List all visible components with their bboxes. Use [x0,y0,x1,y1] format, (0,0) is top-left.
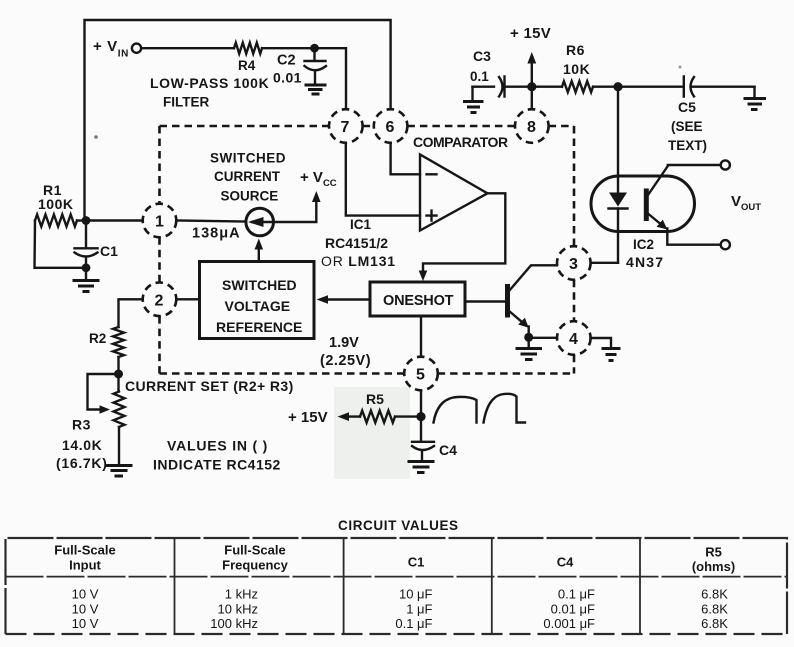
arrowhead into current source [255,239,264,250]
IC1 dashed outline right edge [573,126,576,374]
svg-text:2: 2 [155,292,164,309]
ground pin4 [602,349,621,361]
phototransistor collector [647,165,720,196]
svg-text:10K: 10K [563,61,590,77]
pin 8 [515,109,549,143]
svg-text:14.0K: 14.0K [62,437,102,453]
phototransistor emitter with arrowhead [647,213,663,226]
wire Q1 emitter to node [528,327,530,338]
svg-text:Frequency: Frequency [222,558,289,573]
svg-text:C4: C4 [557,555,574,570]
transistor Q1 emitter with arrowhead [509,311,526,326]
svg-text:Input: Input [69,558,101,573]
wire pin2 to R2 [119,299,143,327]
svg-text:R5: R5 [705,545,722,560]
capacitor C5 [684,77,755,97]
svg-text:CURRENT SET (R2+ R3): CURRENT SET (R2+ R3) [125,378,294,394]
current source arrow [252,221,273,223]
svg-text:C1: C1 [408,555,425,570]
node R1 C1 pin1 [82,216,91,225]
svg-text:R5: R5 [366,391,384,407]
svg-text:INDICATE RC4152: INDICATE RC4152 [153,457,281,473]
capacitor C1 [75,224,98,268]
wire R3 to ground [118,427,120,465]
wire pin4 to ground [591,338,611,347]
wire C5 to ground [753,87,755,98]
svg-text:Full-Scale: Full-Scale [224,543,285,558]
wire VIN to R4 [141,47,234,49]
arrowhead +15V left [338,412,350,421]
svg-text:C3: C3 [473,48,491,64]
resistor R5 [360,411,395,423]
svg-text:C1: C1 [100,243,118,259]
speck [679,66,682,69]
svg-text:6.8K: 6.8K [701,616,728,631]
tint [334,387,410,479]
pin 5 [404,357,438,391]
node +15V junction [527,82,536,91]
capacitor C3 [499,77,528,97]
wire R4 to pin7 drop [262,48,346,109]
table frame [6,538,788,634]
svg-text:(SEE: (SEE [671,119,703,134]
node R6 LED C5 [613,82,622,91]
ground R3 [106,466,133,477]
waveform sawtooth [434,394,526,423]
resistor R1 [35,215,77,227]
svg-text:10 V: 10 V [72,602,99,617]
wire node to ground [528,337,530,348]
terminal Vout lower [721,240,730,249]
capacitor C2 [305,48,327,84]
svg-text:REFERENCE: REFERENCE [216,319,302,335]
svg-text:0.1 μF: 0.1 μF [395,616,432,631]
svg-text:R3: R3 [72,417,91,433]
node R5 C4 [416,412,425,421]
node C2 junction [310,44,319,53]
wire pin2 to SVR [176,298,199,300]
svg-text:1 μF: 1 μF [406,602,432,617]
terminal Vout upper [721,160,730,169]
svg-text:6.8K: 6.8K [701,602,728,617]
capacitor C4 [412,417,434,461]
wire pin3 to LED [591,262,618,264]
arrowhead +VCC [312,191,321,202]
transistor Q1 collector [509,265,558,291]
svg-text:0.1 μF: 0.1 μF [558,587,595,602]
svg-text:IC1: IC1 [350,217,372,232]
resistor R3 [114,392,125,428]
node C1 bottom [82,263,91,272]
wire top feedback loop [85,20,391,221]
optocoupler IC2 package [591,176,695,232]
wire R1 left leg [35,221,86,268]
svg-text:0.01 μF: 0.01 μF [551,602,595,617]
op-amp minus sign [427,173,437,175]
svg-text:10 V: 10 V [72,616,99,631]
svg-text:100 kHz: 100 kHz [210,616,258,631]
wire ground to C3 [473,85,495,87]
svg-text:Full-Scale: Full-Scale [54,543,115,558]
speck2 [94,135,98,139]
ground C5 [744,99,767,110]
wire LED cathode down to pin3 wire [617,209,619,263]
wire node to pin1 [86,219,143,221]
LED D1 cathode bar [609,207,628,209]
svg-text:(16.7K): (16.7K) [56,455,108,471]
wire pin6 to op-amp inverting input [391,143,420,175]
wire R2 to node [117,357,119,374]
svg-text:(2.25V): (2.25V) [320,353,371,369]
transistor Q1 base bar [505,284,510,318]
svg-text:OR LM131: OR LM131 [321,253,396,269]
svg-text:VALUES IN ( ): VALUES IN ( ) [167,438,268,454]
svg-text:SWITCHED: SWITCHED [222,277,297,293]
wire node to R6 [532,85,562,87]
svg-text:138μA: 138μA [192,226,241,242]
wire SVR top to current source arrow up [258,246,260,262]
svg-text:3: 3 [569,256,578,273]
oneshot box [370,282,465,316]
node Q1 emitter [524,333,533,342]
svg-text:1: 1 [155,214,164,231]
wire node to C5 [618,85,684,87]
wire R6 to LED node [593,85,618,87]
svg-text:LOW-PASS 100K: LOW-PASS 100K [150,75,269,91]
svg-text:CIRCUIT VALUES: CIRCUIT VALUES [338,518,459,533]
svg-text:8: 8 [527,119,536,136]
wire R1 right to node [77,219,86,221]
wire pin5 down to node [420,390,422,416]
svg-text:10 V: 10 V [72,587,99,602]
wire node to pin4 [529,337,557,339]
svg-text:TEXT): TEXT) [668,138,707,153]
svg-text:4: 4 [569,331,578,348]
svg-text:SOURCE: SOURCE [221,189,279,204]
ground Q1 emitter [516,349,543,360]
svg-text:SWITCHED: SWITCHED [210,151,286,166]
wire wiper loop [88,374,119,410]
svg-text:6: 6 [386,119,395,136]
node R2 R3 wiper [114,370,123,379]
svg-text:5: 5 [416,367,425,384]
wire pin1 to current source [176,221,246,222]
wire oneshot to SVR with arrowhead [325,298,370,300]
svg-text:VOLTAGE: VOLTAGE [225,298,291,314]
wire node up to +15V arrow [531,60,533,87]
LED D1 anode triangle [609,193,627,207]
svg-text:0.001 μF: 0.001 μF [543,616,595,631]
svg-text:0.1: 0.1 [470,69,489,84]
svg-text:C2: C2 [277,53,296,69]
IC1 dashed outline left edge [158,126,161,374]
ground C2 [305,85,327,94]
ground C3 [471,87,473,101]
svg-text:C4: C4 [439,442,457,458]
wire oneshot to Q1 base [465,300,505,302]
pin 4 [557,321,591,355]
svg-text:10 μF: 10 μF [399,587,433,602]
svg-text:10 kHz: 10 kHz [218,602,258,617]
svg-text:0.01: 0.01 [273,70,302,86]
wire oneshot bottom to pin5 [420,316,422,357]
ground C4 [408,462,435,473]
wire pin7 to op-amp non-inverting input [346,143,420,216]
svg-text:1 kHz: 1 kHz [225,587,258,602]
ground C1 [73,281,100,292]
wire node to R5 [395,415,421,417]
svg-text:C5: C5 [678,99,696,115]
terminal +VIN [132,44,141,53]
arrowhead +15V [527,52,536,64]
svg-text:COMPARATOR: COMPARATOR [413,134,508,150]
resistor R4 [234,43,262,54]
wire node to R3 [117,374,119,392]
svg-text:FILTER: FILTER [163,95,209,110]
wire current source to +VCC arrow [274,197,317,222]
svg-text:(ohms): (ohms) [692,559,735,574]
svg-text:IC2: IC2 [633,237,654,252]
pin 1 [143,204,177,238]
phototransistor Q2 base bar [644,189,649,222]
pin 7 [329,109,363,143]
wire C1 node to ground [85,268,87,280]
svg-text:100K: 100K [38,196,73,212]
svg-text:7: 7 [341,119,350,136]
svg-text:CURRENT: CURRENT [214,169,281,184]
svg-text:4N37: 4N37 [626,254,664,270]
pin 2 [143,283,177,317]
resistor R2 [113,327,124,357]
svg-text:+ 15V: + 15V [510,25,551,42]
arrowhead wiper into R3 [100,405,111,414]
op-amp plus sign [427,211,437,221]
pin 6 [374,109,408,143]
svg-text:R6: R6 [566,42,585,58]
IC1 dashed outline top edge [160,125,575,128]
svg-text:+ 15V: + 15V [288,409,328,426]
wire op-amp output to oneshot with arrowhead [423,193,505,274]
wire R5 to +15V arrow [345,415,360,417]
pin 3 [557,246,591,280]
wire emitter to lower terminal [667,229,720,245]
svg-text:1.9V: 1.9V [329,335,359,351]
wire node down to pin8 [531,87,533,110]
svg-text:6.8K: 6.8K [701,587,728,602]
svg-text:RC4151/2: RC4151/2 [325,235,388,251]
IC1 dashed outline bottom edge [160,372,575,375]
svg-text:R4: R4 [238,58,256,73]
resistor R6 [562,81,593,92]
switched voltage reference box [200,262,315,339]
svg-text:ONESHOT: ONESHOT [383,293,454,309]
svg-text:R2: R2 [89,331,106,346]
op-amp U1 comparator triangle [420,155,488,231]
wire LED feed down into opto [617,87,619,193]
current source U2 circle [246,208,274,236]
